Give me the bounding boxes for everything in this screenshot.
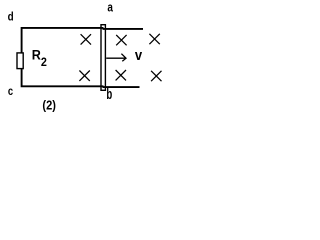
svg-text:d: d: [8, 11, 14, 24]
svg-text:2: 2: [41, 57, 47, 70]
svg-text:b: b: [106, 86, 112, 103]
svg-text:a: a: [107, 1, 113, 14]
svg-text:c: c: [8, 85, 13, 98]
svg-text:R: R: [32, 47, 41, 63]
svg-text:v: v: [135, 47, 143, 63]
svg-text:(2): (2): [42, 98, 56, 113]
